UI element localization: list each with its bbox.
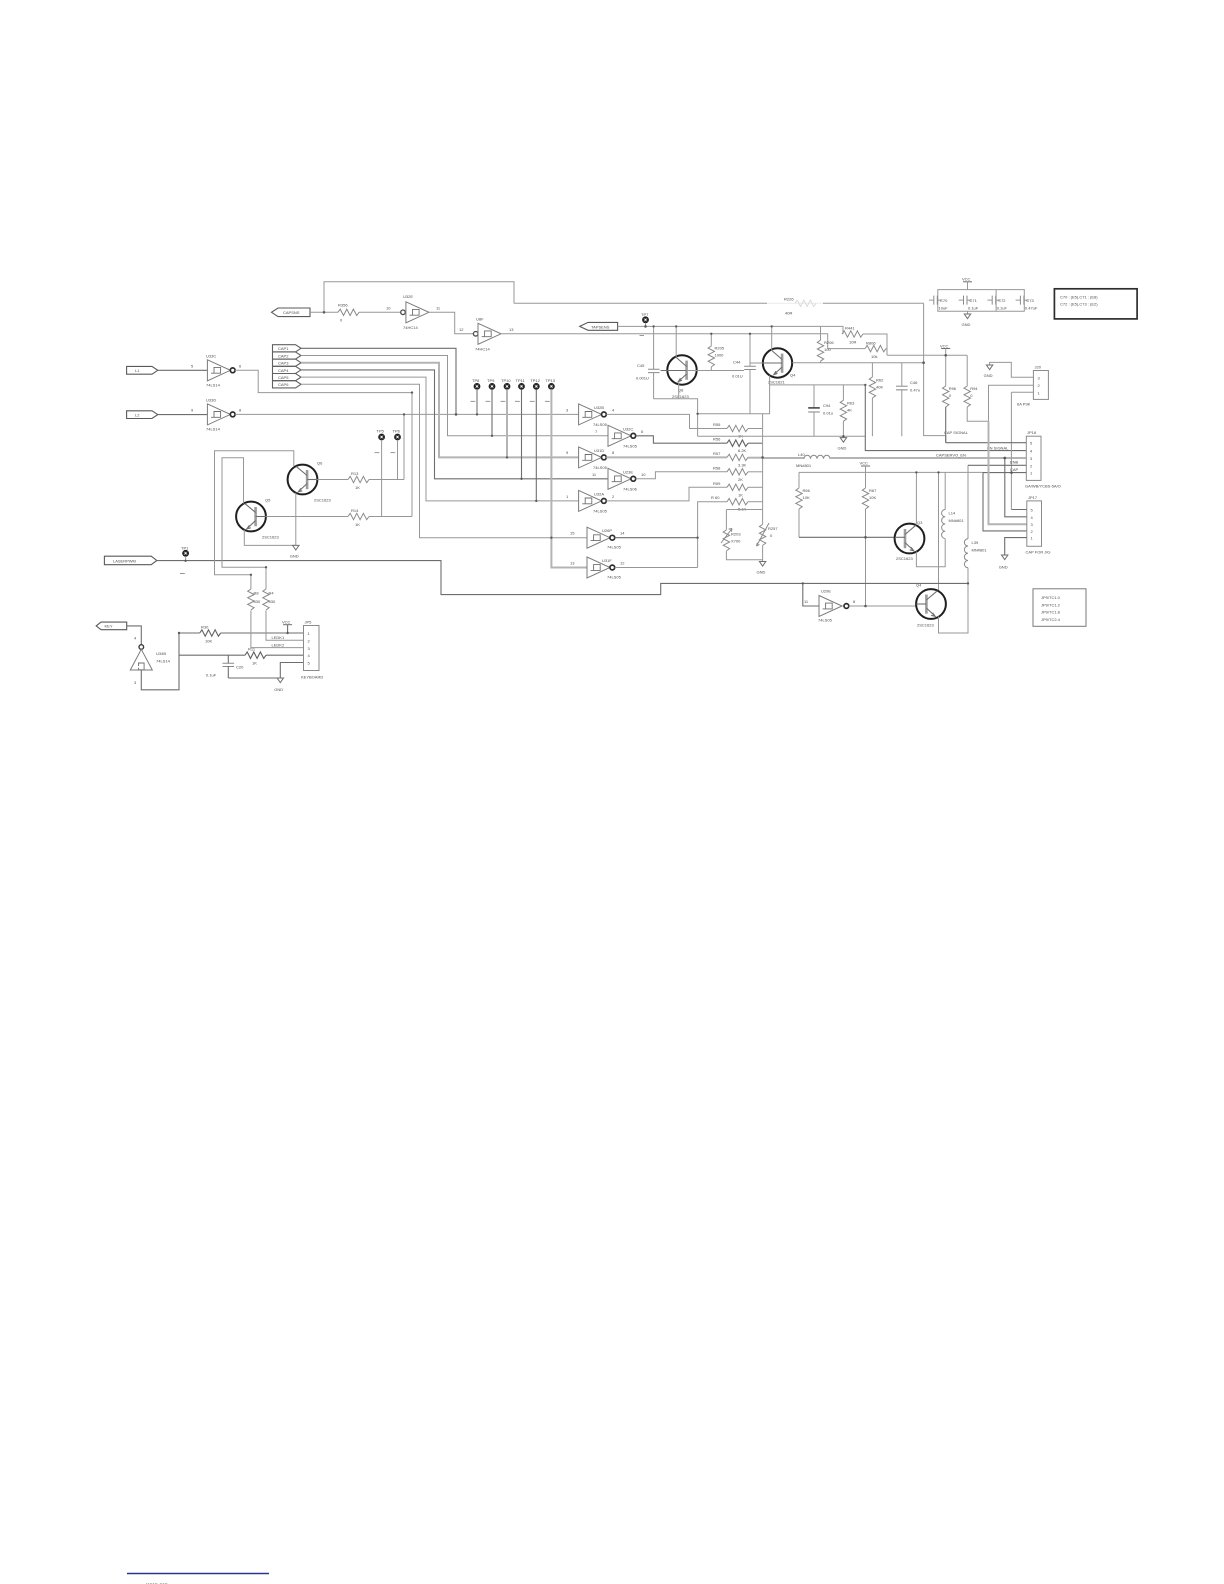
svg-text:74LS05: 74LS05 xyxy=(607,575,622,580)
ground below R257 xyxy=(757,562,766,575)
svg-text:LASERPWM: LASERPWM xyxy=(113,559,136,564)
svg-text:U31F: U31F xyxy=(602,558,612,563)
variable resistor R203 X700 xyxy=(721,529,741,551)
wire grounded return line xyxy=(698,435,866,437)
svg-text:KEY: KEY xyxy=(105,624,113,629)
note box jig list xyxy=(1033,589,1086,627)
svg-text:CAP4: CAP4 xyxy=(278,368,289,373)
svg-text:C44: C44 xyxy=(733,360,741,365)
svg-text:TP9: TP9 xyxy=(487,378,495,383)
svg-text:0.1uF: 0.1uF xyxy=(968,305,979,310)
wire CAP5 route to U32A input xyxy=(301,377,579,501)
svg-text:74LS06: 74LS06 xyxy=(623,486,638,491)
svg-text:12: 12 xyxy=(459,327,464,332)
wire CAP SIGNAL vertical from top line xyxy=(924,303,946,442)
svg-text:10uF: 10uF xyxy=(939,305,949,310)
resistor R59 xyxy=(713,481,763,498)
svg-text:C20: C20 xyxy=(236,665,244,670)
resistor R8 xyxy=(248,589,261,610)
svg-text:LEDK2: LEDK2 xyxy=(272,642,285,647)
inverter U31D 74LS05 xyxy=(566,447,615,470)
svg-text:11: 11 xyxy=(804,599,809,604)
svg-text:74LS05: 74LS05 xyxy=(818,618,833,623)
wire LEDK2 line from R8 xyxy=(251,611,304,648)
svg-text:JP9/TC1.0: JP9/TC1.0 xyxy=(1041,595,1061,600)
wire Q8 emitter to rail xyxy=(678,382,680,399)
svg-text:CAP: CAP xyxy=(1010,467,1019,472)
svg-text:L2: L2 xyxy=(135,413,140,418)
svg-text:2SC1623: 2SC1623 xyxy=(672,394,689,399)
svg-text:11: 11 xyxy=(592,472,597,477)
svg-text:KEYBOARD: KEYBOARD xyxy=(301,675,323,680)
svg-text:U33C: U33C xyxy=(206,353,216,358)
svg-text:VCC: VCC xyxy=(860,461,869,466)
VCC tee above rail xyxy=(860,461,871,473)
svg-text:C46: C46 xyxy=(910,380,918,385)
svg-text:4K: 4K xyxy=(847,408,852,413)
wire top long run to right xyxy=(514,302,924,304)
wire R356 to U32E xyxy=(359,311,400,313)
svg-text:GND: GND xyxy=(838,446,847,451)
wire CAP3 route to U31D input xyxy=(301,363,579,458)
ground below Q5/Q6 emitters xyxy=(290,545,299,558)
svg-text:0.47u: 0.47u xyxy=(910,388,920,393)
resistor R11 xyxy=(245,647,266,666)
wire U8F output long line to R806 xyxy=(501,334,828,349)
wire R13 to U33D line xyxy=(403,414,405,479)
svg-text:40R: 40R xyxy=(785,311,792,316)
svg-text:C70: C70 xyxy=(940,298,948,303)
wire R203 top rail xyxy=(726,510,762,530)
svg-text:4: 4 xyxy=(612,407,615,412)
svg-text:R441: R441 xyxy=(845,326,855,331)
svg-text:CAP3: CAP3 xyxy=(278,361,289,366)
wire L2 to U33D xyxy=(158,414,208,416)
wire U34B input loop xyxy=(141,633,179,690)
svg-text:C70 : (E5),C71 : (E8): C70 : (E5),C71 : (E8) xyxy=(1060,295,1098,300)
svg-text:2K: 2K xyxy=(738,477,743,482)
trimmer R257 xyxy=(757,523,779,546)
flag CAP4 xyxy=(273,366,302,373)
svg-text:1K: 1K xyxy=(252,661,257,666)
connector J20 xyxy=(1017,365,1048,407)
svg-text:R13: R13 xyxy=(351,471,359,476)
svg-text:GA/WB/YCBS-5A/O: GA/WB/YCBS-5A/O xyxy=(1025,484,1061,489)
svg-text:R67: R67 xyxy=(869,488,877,493)
resistor R205 xyxy=(708,334,725,371)
svg-text:10K: 10K xyxy=(869,495,876,500)
wire CAP1 route to U32B input xyxy=(301,348,456,414)
transistor Q6 2SC1623 xyxy=(288,461,332,503)
svg-text:R11: R11 xyxy=(248,647,256,652)
svg-text:74LS14: 74LS14 xyxy=(206,382,221,387)
wire Q5 emitter to ground rail xyxy=(244,530,295,546)
wire Q6 collector loop to R8 xyxy=(215,451,294,589)
wire U26P out to common vertical xyxy=(615,537,698,539)
capacitor C70 10uF xyxy=(929,296,948,311)
wire U31D out gray to R57 xyxy=(606,456,727,458)
resistor R67 xyxy=(862,472,877,606)
wire U32B out to R55 xyxy=(606,414,727,428)
connector JP18 xyxy=(1025,430,1061,489)
svg-text:JP9/TC1.2: JP9/TC1.2 xyxy=(1041,602,1061,607)
svg-text:CAP SIGNAL: CAP SIGNAL xyxy=(944,430,969,435)
test point TP5 xyxy=(375,428,385,516)
svg-text:C72: C72 xyxy=(998,298,1006,303)
svg-text:Q4: Q4 xyxy=(790,373,796,378)
wire Q6 emitter down xyxy=(295,493,297,546)
wire U33C out to Q5 base route xyxy=(235,370,412,516)
ground below cap bank xyxy=(962,311,971,327)
resistor R63 xyxy=(840,385,855,436)
svg-text:9: 9 xyxy=(566,450,569,455)
resistor R441 xyxy=(842,326,863,345)
svg-text:U31D: U31D xyxy=(594,448,604,453)
svg-text:C73: C73 xyxy=(1026,298,1034,303)
transistor Q8 2SC1623 xyxy=(661,355,697,399)
svg-text:10: 10 xyxy=(386,305,391,310)
cap bank outline xyxy=(938,290,1025,312)
capacitor C20 xyxy=(206,655,244,678)
svg-text:TP5: TP5 xyxy=(377,428,385,433)
svg-text:R257: R257 xyxy=(768,526,778,531)
svg-text:MN#801: MN#801 xyxy=(796,463,812,468)
test point TP9 xyxy=(486,378,496,436)
svg-text:10R: 10R xyxy=(849,340,856,345)
svg-text:6A P9K: 6A P9K xyxy=(1017,402,1031,407)
svg-text:U26P: U26P xyxy=(602,528,612,533)
svg-text:C94: C94 xyxy=(823,403,831,408)
flag CAP2 xyxy=(273,352,302,359)
inductor L14 MN#601 xyxy=(942,472,965,538)
svg-text:R8: R8 xyxy=(254,591,260,596)
svg-text:1K: 1K xyxy=(355,485,360,490)
wire Q8 collector to top line xyxy=(675,326,677,357)
svg-text:1000: 1000 xyxy=(715,353,725,358)
flag CAP6 xyxy=(273,381,302,388)
wire emitter branch line xyxy=(770,384,866,386)
svg-text:TP10: TP10 xyxy=(501,378,511,383)
svg-text:5: 5 xyxy=(191,363,194,368)
wire JP17 pin3 branch xyxy=(989,421,1027,524)
wire R94 route to J20 pin2 xyxy=(989,385,1034,421)
svg-text:R62: R62 xyxy=(876,378,884,383)
svg-text:JP17: JP17 xyxy=(1028,495,1038,500)
wire TAPSENS flag line xyxy=(618,326,843,334)
svg-text:1: 1 xyxy=(566,494,569,499)
svg-text:R4: R4 xyxy=(269,591,275,596)
wire U32E out down to U8F xyxy=(429,312,474,334)
svg-text:3: 3 xyxy=(134,680,137,685)
inverter U32A 74LS05 xyxy=(566,490,615,513)
ground above J20 xyxy=(984,362,1034,378)
junction dots xyxy=(178,311,1013,634)
svg-text:MN#801: MN#801 xyxy=(972,548,988,553)
wire emitter rail xyxy=(654,399,770,436)
resistor R96 xyxy=(943,386,957,443)
wire Q3 collector to VCC rail xyxy=(915,472,917,525)
svg-text:74LS14: 74LS14 xyxy=(156,659,171,664)
flag L1 xyxy=(127,366,158,374)
svg-text:GND: GND xyxy=(962,322,971,327)
svg-text:C72 : (E5),C73 : (E2): C72 : (E5),C73 : (E2) xyxy=(1060,302,1098,307)
inductor L39 MN#801 xyxy=(964,465,987,568)
transistor Q4 2SC1621 xyxy=(763,348,796,384)
svg-text:C71: C71 xyxy=(970,298,978,303)
svg-text:R56: R56 xyxy=(713,437,721,442)
inverter U34B 74LS14 vertical xyxy=(130,636,170,685)
svg-text:10k: 10k xyxy=(871,354,877,359)
svg-text:TP7: TP7 xyxy=(641,312,649,317)
resistor R226 faint inline on top wire xyxy=(767,297,823,316)
svg-text:40K: 40K xyxy=(876,385,883,390)
svg-text:LEDK1: LEDK1 xyxy=(272,635,285,640)
transistor Q5 2SC1623 xyxy=(236,498,279,540)
capacitor C44 xyxy=(732,334,756,414)
capacitor C71 0.1uF xyxy=(959,296,979,311)
wire JP18 pin2 ENB from L39 xyxy=(968,464,1026,466)
resistor R58 xyxy=(713,465,763,482)
svg-text:GND: GND xyxy=(274,687,283,692)
svg-text:8: 8 xyxy=(612,450,615,455)
svg-text:9: 9 xyxy=(191,407,194,412)
svg-text:R356: R356 xyxy=(338,303,348,308)
wire Q8 base to R205/C44 xyxy=(687,370,744,372)
wire CAP4 route to U32E' input xyxy=(301,370,608,479)
wire Q4 collector to top line xyxy=(771,326,773,350)
flag L2 xyxy=(127,411,158,419)
inverter U26P 74LS05 xyxy=(570,527,625,550)
capacitor C46 xyxy=(896,363,920,437)
flag CAP5 xyxy=(273,374,302,381)
svg-text:74HC14: 74HC14 xyxy=(475,346,490,351)
ground below JP17 xyxy=(999,555,1008,570)
svg-text:74LS14: 74LS14 xyxy=(206,426,221,431)
svg-text:100: 100 xyxy=(824,347,831,352)
wire LEDK1 line from R4 xyxy=(266,611,304,641)
wire Q4 base line to right xyxy=(750,362,924,364)
svg-text:Q3: Q3 xyxy=(917,520,923,525)
svg-text:13: 13 xyxy=(570,561,575,566)
resistor R30 xyxy=(200,625,221,644)
connector JP17 xyxy=(1026,495,1051,555)
resistor R66 xyxy=(796,472,811,537)
wire CAP2 route to U32C input xyxy=(301,356,608,436)
svg-text:2SC1623: 2SC1623 xyxy=(262,535,279,540)
VCC tee above cap bank xyxy=(962,276,972,289)
svg-text:2: 2 xyxy=(612,494,615,499)
svg-text:0.47uF: 0.47uF xyxy=(1025,305,1038,310)
svg-text:X700: X700 xyxy=(731,539,741,544)
wire L1 to U33C xyxy=(158,369,208,371)
resistor R806 xyxy=(828,341,887,359)
svg-text:TP11: TP11 xyxy=(516,378,526,383)
svg-text:R14: R14 xyxy=(351,508,359,513)
svg-text:330: 330 xyxy=(254,599,261,604)
flag LASERPWM xyxy=(104,556,156,565)
wire EN SIGNAL vertical and run to JP18 pin4 xyxy=(865,385,1026,451)
wire R11 to JP5 pin4 xyxy=(266,654,304,656)
flag CAP1 xyxy=(273,345,302,352)
svg-text:VCC: VCC xyxy=(282,619,291,624)
svg-text:74LS05: 74LS05 xyxy=(607,545,622,550)
svg-text:JP9/TC2.4: JP9/TC2.4 xyxy=(1041,617,1061,622)
svg-text:GND: GND xyxy=(984,373,993,378)
svg-text:R 60: R 60 xyxy=(711,495,720,500)
svg-text:R57: R57 xyxy=(713,451,721,456)
wire R203/R257 bottom to ground xyxy=(726,545,762,561)
svg-text:R94: R94 xyxy=(970,386,978,391)
test point TP1 xyxy=(180,546,189,574)
wire LASERPWM route to U29E xyxy=(157,561,968,606)
svg-text:MN#601: MN#601 xyxy=(949,518,965,523)
svg-text:74LS05: 74LS05 xyxy=(593,422,608,427)
wire VCC rail drop right vertical xyxy=(938,472,940,592)
wire row4 line to R11 xyxy=(179,654,245,656)
wire Q3 emitter to L14 bottom xyxy=(916,539,945,567)
svg-text:0.1uF: 0.1uF xyxy=(997,305,1008,310)
transistor Q14 2SC1623 xyxy=(916,583,946,628)
svg-text:U8F: U8F xyxy=(476,316,484,321)
note box C70-C73 locations xyxy=(1054,289,1137,319)
capacitor C72 0.1uF xyxy=(987,296,1007,311)
svg-text:TP13: TP13 xyxy=(545,378,555,383)
wire Q4 emitter down xyxy=(769,376,771,414)
svg-text:0.1uF: 0.1uF xyxy=(206,673,217,678)
svg-text:0: 0 xyxy=(949,393,952,398)
capacitor C94 polarized xyxy=(808,385,833,436)
resistor R14 xyxy=(266,508,412,527)
wire JP17 pin1 to ground xyxy=(1005,538,1027,555)
flag CAPSNS xyxy=(272,308,311,317)
svg-text:R203: R203 xyxy=(731,531,741,536)
svg-text:L40: L40 xyxy=(798,452,805,457)
capacitor C73 0.47uF xyxy=(1016,296,1038,311)
svg-text:7: 7 xyxy=(595,429,598,434)
svg-text:GND: GND xyxy=(757,570,766,575)
svg-text:10K: 10K xyxy=(803,495,810,500)
svg-text:TP8: TP8 xyxy=(472,378,480,383)
svg-text:74HC14: 74HC14 xyxy=(403,325,418,330)
capacitor C45 xyxy=(636,326,660,398)
wire U32C out to R56 xyxy=(636,436,727,443)
resistor R57 xyxy=(713,451,763,468)
inverter U8F 74HC14 xyxy=(459,316,514,351)
svg-text:GND: GND xyxy=(999,565,1008,570)
svg-text:....... .....: ....... ..... xyxy=(146,1580,168,1584)
svg-text:74LS05: 74LS05 xyxy=(593,508,608,513)
svg-text:8: 8 xyxy=(853,599,856,604)
resistor R94 xyxy=(964,355,989,421)
svg-text:3.3K: 3.3K xyxy=(738,462,747,467)
bottom page link line xyxy=(127,1573,269,1575)
svg-text:12: 12 xyxy=(620,561,625,566)
inverter U32E' 74LS06 xyxy=(592,468,646,491)
svg-text:0: 0 xyxy=(970,393,973,398)
svg-text:10K: 10K xyxy=(205,639,212,644)
svg-text:330: 330 xyxy=(269,599,276,604)
inductor L40 MN#801 xyxy=(763,452,1027,468)
svg-text:TP1: TP1 xyxy=(181,546,189,551)
flag TAPSENS xyxy=(580,322,618,330)
svg-text:R59: R59 xyxy=(713,481,721,486)
wire R441 right to vertical xyxy=(863,334,887,355)
svg-text:R226: R226 xyxy=(784,297,794,302)
svg-text:R206: R206 xyxy=(824,340,834,345)
svg-text:CAP1: CAP1 xyxy=(278,346,289,351)
svg-text:R96: R96 xyxy=(949,386,957,391)
svg-text:VCC: VCC xyxy=(940,343,949,348)
svg-text:1K: 1K xyxy=(738,492,743,497)
svg-text:EN SIGNAL: EN SIGNAL xyxy=(987,445,1009,450)
test point TP7 xyxy=(640,312,650,335)
wire JP17 pin4 branch from CAPSERVO_EN xyxy=(1005,458,1027,517)
svg-text:L1: L1 xyxy=(135,368,140,373)
resistor R206 xyxy=(817,326,834,362)
flag KEY xyxy=(96,622,127,630)
svg-text:14: 14 xyxy=(620,531,625,536)
VCC tee above JP5 xyxy=(282,619,292,633)
svg-text:U29E: U29E xyxy=(821,589,831,594)
svg-text:3: 3 xyxy=(566,407,569,412)
wire Q14 emitter to L39 bottom xyxy=(939,568,969,633)
test point TP8 xyxy=(471,378,481,415)
wire C20 bottom rail to JP5 pin5 xyxy=(228,663,303,679)
svg-text:VCC: VCC xyxy=(962,276,971,281)
svg-text:TAPSENS: TAPSENS xyxy=(591,324,610,329)
test point TP13 xyxy=(545,378,587,568)
svg-text:U32E: U32E xyxy=(403,294,413,299)
wire U29E out to Q14 base xyxy=(849,605,916,607)
svg-text:U32C: U32C xyxy=(623,426,633,431)
svg-text:CAPSNS: CAPSNS xyxy=(283,310,300,315)
svg-text:0.01U: 0.01U xyxy=(732,374,743,379)
svg-text:13: 13 xyxy=(509,327,514,332)
svg-text:R806: R806 xyxy=(866,341,876,346)
svg-text:CAP5: CAP5 xyxy=(278,375,289,380)
svg-text:U32A: U32A xyxy=(594,491,604,496)
svg-text:JP18: JP18 xyxy=(1027,430,1037,435)
wire JP18 pin1 CAP xyxy=(983,472,1027,531)
inverter U33C 74LS14 xyxy=(191,353,242,387)
inverter U29E 74LS05 xyxy=(804,589,856,623)
svg-text:CAP2: CAP2 xyxy=(278,353,289,358)
VCC tee above R96 xyxy=(940,343,950,386)
svg-text:74LS05: 74LS05 xyxy=(593,465,608,470)
svg-text:0.001U: 0.001U xyxy=(636,376,649,381)
inverter U32E 74HC14 xyxy=(386,294,441,330)
wire VCC rail xyxy=(799,471,983,473)
svg-text:C45: C45 xyxy=(637,363,645,368)
svg-text:CAPSERVO_EN: CAPSERVO_EN xyxy=(936,452,966,457)
svg-text:JP5: JP5 xyxy=(305,620,313,625)
svg-text:JP9/TC1.8: JP9/TC1.8 xyxy=(1041,610,1061,615)
svg-text:R30: R30 xyxy=(201,625,209,630)
resistor R4 xyxy=(263,589,276,610)
svg-text:R205: R205 xyxy=(715,346,725,351)
svg-text:U32B: U32B xyxy=(594,405,604,410)
svg-text:R55: R55 xyxy=(713,422,721,427)
svg-text:1K: 1K xyxy=(355,522,360,527)
resistor R13 xyxy=(317,471,404,490)
svg-text:2SC1621: 2SC1621 xyxy=(768,380,785,385)
wire CAP6 route to U26P input xyxy=(301,384,587,537)
wire J20 pin1 to JP17 pin5 chain xyxy=(1011,392,1033,509)
inverter U32C 74LS05 xyxy=(595,425,644,448)
test point TP10 xyxy=(501,378,512,458)
inverter U33D 74LS14 xyxy=(191,397,242,431)
resistor R60 xyxy=(711,495,763,512)
